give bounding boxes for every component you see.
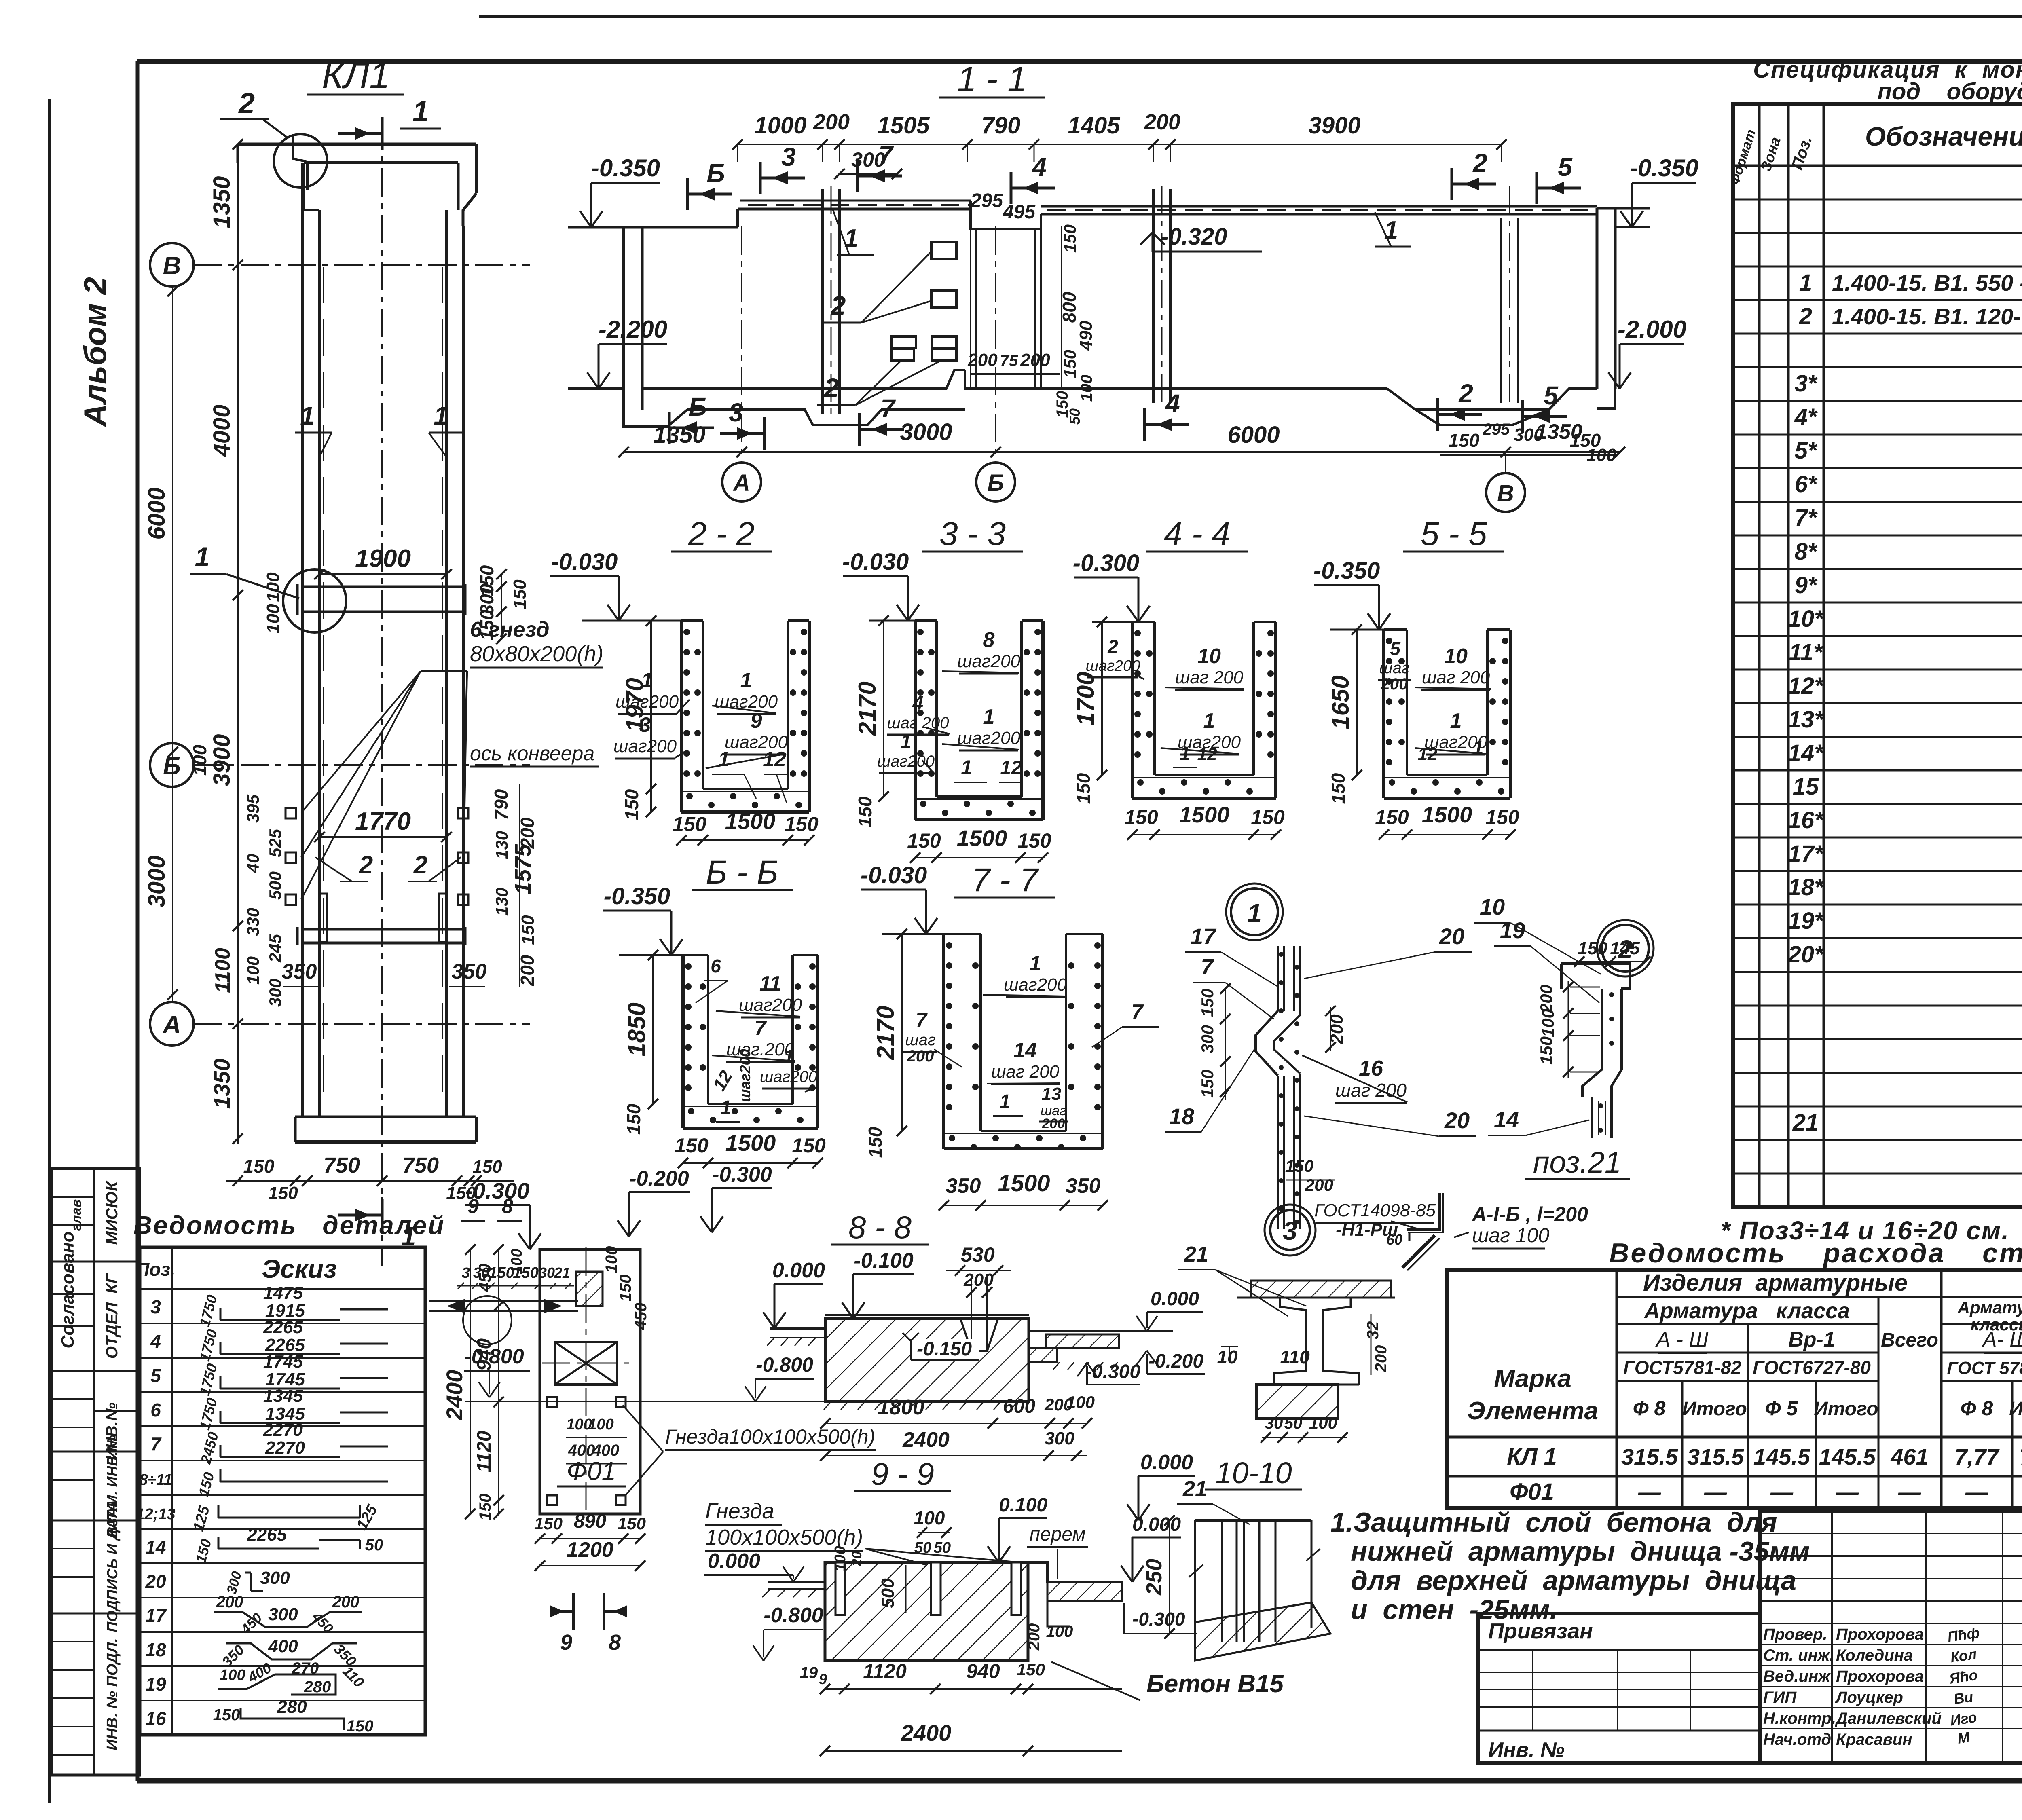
5-5 dims [1327,624,1519,840]
5-5 level -0.350 [1313,558,1390,630]
svg-text:Поз.: Поз. [136,1259,175,1280]
svg-text:17*: 17* [1788,841,1824,867]
1-1 left wall [624,209,738,410]
svg-text:шаг 200: шаг 200 [991,1062,1060,1082]
svg-text:8: 8 [502,1195,513,1218]
section Б-Б concrete outline [683,955,818,1128]
7-7 dims [865,929,1108,1211]
section 5-5 rebar dots [1386,638,1508,795]
svg-text:-0.300: -0.300 [712,1163,772,1186]
detail mark 1 [1226,884,1283,940]
svg-text:30: 30 [1265,1414,1283,1432]
svg-text:шаг200: шаг200 [739,995,802,1015]
svg-text:1: 1 [1799,270,1812,296]
svg-text:перем: перем [1030,1524,1086,1545]
8-8 foundation block [824,1274,1029,1410]
svg-text:1350: 1350 [653,422,705,448]
svg-text:150: 150 [1073,773,1094,804]
svg-text:150: 150 [1537,1036,1556,1065]
svg-text:5 - 5: 5 - 5 [1421,516,1487,552]
svg-text:1: 1 [1384,216,1398,244]
svg-text:100: 100 [832,1546,849,1571]
svg-text:5: 5 [1544,381,1559,410]
svg-text:1120: 1120 [474,1431,495,1473]
svg-text:150: 150 [792,1134,826,1157]
svg-text:350: 350 [946,1174,981,1198]
svg-text:200: 200 [1327,1014,1347,1044]
svg-text:—: — [1638,1479,1661,1505]
svg-text:315.5: 315.5 [1621,1444,1678,1469]
поз.21 labels [1314,1201,1588,1249]
svg-text:2: 2 [1472,148,1487,178]
svg-text:ось конвеера: ось конвеера [470,742,594,765]
svg-text:12*: 12* [1788,673,1824,699]
svg-text:шаг: шаг [1379,659,1409,677]
section 3-3 concrete outline [915,621,1043,820]
9-9 dims and labels [800,1494,1284,1756]
Ф01 left dim chains [442,1244,525,1520]
svg-text:шаг 200: шаг 200 [1175,668,1244,687]
svg-text:1500: 1500 [1179,802,1230,827]
1-1 axis Б circle [976,226,1015,501]
svg-text:1: 1 [412,95,429,128]
svg-text:Вед.инж: Вед.инж [1763,1668,1831,1685]
svg-text:-2.000: -2.000 [1618,316,1686,343]
Б-Б level -0.350 [603,883,683,955]
svg-text:20: 20 [145,1571,166,1592]
svg-text:Инв. №: Инв. № [1488,1738,1565,1762]
svg-text:1120: 1120 [863,1660,907,1683]
svg-text:6*: 6* [1795,471,1818,497]
8-8 right slab [1029,1331,1173,1370]
section title 1-1 [939,60,1045,99]
svg-text:2: 2 [413,851,427,879]
Альбом 2 label [77,277,113,427]
svg-text:4: 4 [1165,389,1180,418]
svg-text:-0.150: -0.150 [917,1338,972,1360]
svg-text:1100: 1100 [211,948,235,993]
svg-text:350: 350 [282,960,317,983]
svg-text:-0.350: -0.350 [604,883,670,909]
svg-text:20: 20 [1439,924,1464,949]
svg-text:150: 150 [673,813,706,835]
section mark 1 top [338,95,441,150]
svg-text:шаг200: шаг200 [737,1049,753,1102]
svg-text:145: 145 [1610,939,1640,958]
9-9 foundation block [762,1562,1122,1661]
КЛ1 outer dim chain [144,286,178,1002]
svg-text:13: 13 [1042,1084,1062,1104]
svg-text:530: 530 [961,1243,995,1266]
svg-text:9: 9 [751,709,762,733]
7-7 level -0.030 [861,862,944,934]
svg-text:2265: 2265 [247,1525,287,1545]
1-1 bottom dim chain [618,419,1625,465]
1-1 -2.200 level [587,316,667,389]
svg-text:Альбом 2: Альбом 2 [77,277,113,427]
svg-text:Арматура класса: Арматура класса [1643,1299,1850,1323]
svg-text:Ф01: Ф01 [567,1456,616,1486]
svg-text:1650: 1650 [1327,675,1354,729]
svg-text:940: 940 [966,1660,1000,1683]
svg-text:150: 150 [1285,1156,1313,1175]
svg-text:шаг 100: шаг 100 [1472,1224,1549,1247]
svg-text:1770: 1770 [355,807,411,835]
svg-text:Б: Б [688,392,706,421]
svg-text:Бетон В15: Бетон В15 [1146,1670,1284,1698]
svg-text:1: 1 [1450,709,1462,733]
title block main [1760,1511,2022,1763]
svg-text:ГОСТ6727-80: ГОСТ6727-80 [1753,1357,1871,1378]
8-8 left ground strip [763,1259,825,1346]
svg-text:11*: 11* [1789,639,1823,666]
svg-text:-2.200: -2.200 [599,316,667,343]
svg-text:Красавин: Красавин [1836,1731,1912,1748]
svg-text:8*: 8* [1795,539,1818,565]
1-1 excavation line [624,389,1615,427]
svg-text:1745: 1745 [263,1352,303,1372]
1-1 top slab right portion [1041,206,1597,214]
1-1 закладные поз.2 lower pair [892,336,956,361]
svg-text:В: В [1497,480,1514,507]
1-1 column V [1501,186,1518,404]
svg-text:12: 12 [1418,744,1438,764]
svg-text:Гнезда: Гнезда [705,1499,774,1523]
section mark 1 leader mid [190,542,299,598]
svg-text:Всего: Всего [1881,1330,1938,1351]
svg-text:150: 150 [1328,773,1349,804]
svg-text:поз.21: поз.21 [1533,1146,1621,1179]
small dim cluster left [189,744,285,1007]
1-1 axis В circle [1486,452,1525,512]
5-5 leader labels [1378,638,1491,764]
svg-text:300: 300 [260,1568,290,1588]
svg-text:495: 495 [1003,201,1036,223]
svg-text:7: 7 [916,1009,928,1032]
svg-text:1: 1 [1180,743,1191,765]
поз2 leaders on plan [315,851,461,881]
svg-text:1800: 1800 [878,1396,924,1419]
svg-text:Н.контр.: Н.контр. [1763,1710,1836,1727]
svg-text:-0.030: -0.030 [861,862,927,888]
svg-text:Ф 8: Ф 8 [1961,1397,1993,1420]
svg-text:200: 200 [907,1047,934,1065]
svg-text:3: 3 [729,398,743,427]
svg-text:100: 100 [189,744,210,776]
svg-text:50: 50 [365,1536,383,1554]
svg-text:2400: 2400 [901,1720,952,1746]
svg-text:1900: 1900 [355,545,411,573]
svg-text:Нач.отд: Нач.отд [1763,1731,1831,1748]
svg-text:750: 750 [324,1153,360,1177]
svg-text:7*: 7* [1795,505,1818,531]
svg-text:шаг200: шаг200 [877,753,935,770]
svg-text:нижней арматуры днища -35мм: нижней арматуры днища -35мм [1351,1536,1810,1567]
7-7 leader labels [903,952,1159,1131]
svg-text:глав: глав [69,1199,84,1231]
svg-text:1: 1 [721,1097,732,1118]
svg-text:2: 2 [1107,636,1118,657]
1-1 label 2 with leaders [817,253,942,405]
svg-text:Прохорова: Прохорова [1836,1668,1924,1685]
svg-text:0.100: 0.100 [999,1494,1047,1516]
svg-text:295: 295 [970,190,1003,211]
2-2 leader labels [613,669,789,803]
svg-text:150: 150 [785,813,819,835]
svg-text:3: 3 [781,142,796,171]
view title КЛ1 [307,55,404,96]
Ф01 plan outline [540,1249,640,1514]
svg-text:2170: 2170 [854,681,881,736]
8-8 right levels [1077,1288,1205,1385]
section title 2-2 [671,516,772,552]
svg-text:20*: 20* [1787,941,1824,968]
svg-text:150: 150 [617,1275,635,1302]
svg-text:Ст. инж.: Ст. инж. [1763,1647,1834,1664]
КЛ1 axis line [381,121,383,1266]
svg-text:6000: 6000 [144,487,170,539]
9-9 гнезда label [705,1499,1011,1565]
section 7-7 rebar dots [946,942,1101,1150]
section title 3-3 [922,516,1023,552]
svg-text:100: 100 [220,1667,245,1684]
svg-text:-0.800: -0.800 [756,1353,813,1376]
svg-text:200: 200 [1025,1623,1043,1651]
svg-text:150: 150 [1017,829,1051,852]
svg-text:18: 18 [1169,1103,1195,1129]
svg-text:8: 8 [609,1630,621,1655]
detail 1 wall fragment [1256,946,1300,1229]
svg-text:3000: 3000 [900,419,952,445]
9-9 levels left [704,1549,823,1661]
svg-text:145.5: 145.5 [1819,1444,1876,1469]
svg-text:1575: 1575 [510,844,535,894]
signatures column [1946,1624,1981,1747]
svg-text:КЛ1: КЛ1 [322,55,390,96]
svg-text:19: 19 [145,1674,166,1695]
узел поз.21 with I-beam [1178,1242,1395,1443]
svg-text:1345: 1345 [263,1386,303,1406]
section 2-2 concrete outline [681,621,809,812]
svg-text:1.400-15. В1. 550 -04: 1.400-15. В1. 550 -04 [1832,270,2022,296]
axis А [150,1002,530,1046]
ведомость деталей grid [140,1247,425,1735]
4-4 dims [1072,617,1285,840]
svg-text:300: 300 [266,979,285,1007]
svg-text:Марка: Марка [1494,1365,1571,1393]
svg-text:Лоуцкер: Лоуцкер [1835,1689,1903,1706]
svg-text:4: 4 [912,693,924,714]
svg-text:130: 130 [492,888,511,916]
svg-text:150: 150 [510,579,530,609]
svg-text:150: 150 [1485,806,1519,829]
svg-text:20: 20 [1444,1108,1470,1133]
svg-text:17: 17 [1191,924,1217,949]
detail mark 2 [1597,920,1654,977]
section title 4-4 [1146,516,1248,552]
detail circle 2 on plan top [220,87,327,190]
title block annex Привязан [1478,1613,1760,1763]
svg-text:ГИП: ГИП [1763,1689,1797,1706]
svg-text:400: 400 [568,1442,595,1459]
svg-text:150: 150 [472,1157,502,1177]
svg-text:1850: 1850 [623,1002,650,1056]
detail mark 3 [1265,1205,1316,1256]
section mark 1 bottom [338,1197,416,1251]
svg-text:450: 450 [475,1264,494,1292]
svg-text:100: 100 [1046,1623,1073,1640]
svg-text:4000: 4000 [209,404,235,457]
svg-text:-0.200: -0.200 [1148,1351,1203,1372]
svg-text:—: — [1770,1479,1794,1505]
spec table header [1727,113,2022,187]
1-1 upper section arrows [687,140,1581,210]
section title 5-5 [1403,516,1504,552]
svg-text:1700: 1700 [1072,672,1099,725]
svg-text:1: 1 [1030,952,1041,975]
1-1 bottom slab top line [568,370,1597,410]
svg-text:13*: 13* [1788,706,1824,733]
svg-text:21: 21 [1182,1477,1207,1501]
svg-text:ПОДПИСЬ И ДАТА: ПОДПИСЬ И ДАТА [104,1501,121,1632]
1-1 label 1 leaders [833,210,1411,255]
svg-text:8 - 8: 8 - 8 [848,1209,912,1245]
svg-text:200: 200 [216,1593,243,1611]
svg-text:1500: 1500 [725,808,776,834]
svg-text:А-I-Б , l=200: А-I-Б , l=200 [1471,1203,1588,1226]
svg-text:1: 1 [961,756,972,779]
Б-Б dims [623,950,826,1168]
svg-text:ИНВ. № ПОДЛ.: ИНВ. № ПОДЛ. [104,1638,121,1750]
svg-text:1200: 1200 [567,1538,613,1562]
svg-text:750: 750 [402,1153,439,1177]
svg-text:шаг200: шаг200 [715,692,778,712]
svg-text:100: 100 [1538,1009,1557,1037]
svg-text:1: 1 [740,669,752,692]
svg-text:14: 14 [145,1537,166,1558]
section title 8-8 [831,1209,929,1245]
ведомость деталей rows [136,1283,388,1735]
svg-text:150: 150 [1198,1070,1217,1098]
svg-text:2: 2 [823,373,839,403]
8-8 notch dims 530 200 [946,1243,1011,1298]
1-1 закладные поз.2 rects [931,242,956,307]
svg-text:200: 200 [1144,110,1180,134]
svg-text:Арматура: Арматура [1957,1298,2022,1317]
svg-text:1: 1 [1247,898,1262,928]
svg-text:17: 17 [145,1605,167,1626]
svg-text:200: 200 [813,110,850,134]
1-1 top slab left portion [738,201,971,209]
svg-text:3900: 3900 [209,734,235,786]
svg-text:100х100х500(h): 100х100х500(h) [705,1525,863,1549]
svg-text:5: 5 [150,1365,161,1386]
svg-text:10*: 10* [1788,606,1824,632]
svg-text:16*: 16* [1788,807,1824,833]
section title 9-9 [854,1456,951,1492]
svg-text:150: 150 [907,829,941,852]
8-8 level -0.800 [745,1353,814,1401]
svg-text:6: 6 [711,955,721,977]
svg-text:9*: 9* [1795,572,1818,598]
svg-text:3*: 3* [1795,370,1818,397]
svg-text:—: — [1965,1479,1988,1505]
svg-text:3: 3 [639,713,651,737]
svg-text:Провер.: Провер. [1763,1626,1827,1643]
svg-text:ГОСТ14098-85: ГОСТ14098-85 [1314,1201,1436,1220]
svg-text:16: 16 [145,1708,166,1729]
svg-text:10: 10 [1444,645,1468,668]
10-10 levels [1127,1451,1250,1524]
svg-text:шаг 200: шаг 200 [887,714,949,732]
svg-text:330: 330 [243,908,262,936]
svg-text:150: 150 [268,1183,298,1203]
svg-text:32: 32 [1364,1321,1382,1340]
svg-text:600: 600 [1003,1396,1035,1417]
svg-text:11: 11 [759,972,781,996]
svg-text:200: 200 [1305,1175,1333,1194]
8-8 bottom dims [820,1393,1095,1461]
1-1 right levels [1608,154,1698,389]
svg-text:Ведомость расхода стали: Ведомость расхода стали на элемент , кг … [1609,1238,2022,1268]
svg-text:10-10: 10-10 [1215,1456,1292,1490]
svg-text:3: 3 [462,1264,470,1281]
svg-text:2270: 2270 [263,1420,303,1440]
svg-text:200: 200 [1381,675,1408,693]
svg-text:-0.800: -0.800 [464,1345,524,1368]
svg-text:300: 300 [268,1604,298,1624]
svg-text:100: 100 [1309,1413,1337,1432]
svg-text:790: 790 [981,112,1021,139]
1-1 top dimension chain [732,110,1507,179]
svg-text:МИСЮК: МИСЮК [103,1180,121,1245]
svg-text:-0.800: -0.800 [764,1604,823,1627]
svg-text:16: 16 [1359,1056,1383,1080]
svg-text:500: 500 [266,871,285,900]
svg-text:ГОСТ5781-82: ГОСТ5781-82 [1623,1357,1741,1378]
svg-text:-0.300: -0.300 [1073,550,1139,576]
spec table rows [1787,200,2022,1203]
svg-text:шаг: шаг [905,1031,935,1049]
4-4 level -0.300 [1073,550,1150,622]
svg-text:Изделия арматурные: Изделия арматурные [1643,1270,1908,1296]
svg-text:А: А [732,470,750,496]
svg-text:Коледина: Коледина [1836,1647,1913,1664]
svg-text:21: 21 [554,1264,570,1281]
10-10 dim 250 [1142,1515,1175,1639]
svg-text:150: 150 [1060,224,1079,253]
1-1 column A [823,186,840,416]
svg-text:150: 150 [1375,806,1409,829]
svg-text:60: 60 [1386,1231,1402,1248]
section 4-4 concrete outline [1132,622,1276,798]
svg-text:-0.030: -0.030 [551,549,618,575]
svg-text:395: 395 [243,794,262,823]
svg-text:19: 19 [1500,917,1525,943]
ось конвеера label [470,742,599,767]
3-3 leader labels [877,628,1023,782]
svg-text:130: 130 [492,831,511,859]
svg-text:0.000: 0.000 [1140,1451,1193,1474]
scan top edge line [479,15,2022,18]
svg-text:19: 19 [800,1664,818,1682]
10-10 wall slice [1189,1520,1330,1661]
svg-text:150: 150 [621,789,642,820]
2-2 dims [621,615,819,846]
svg-text:шаг 200: шаг 200 [1422,668,1490,687]
svg-text:1: 1 [1473,737,1484,759]
svg-text:6000: 6000 [1227,422,1280,448]
